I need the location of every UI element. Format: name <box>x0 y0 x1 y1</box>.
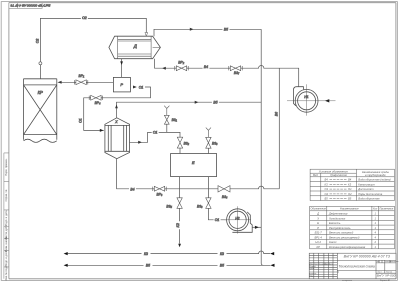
valve VR1 flanged <box>74 80 87 85</box>
svg-text:Пары дистиллята: Пары дистиллята <box>358 192 382 196</box>
flow arrow right on B5 top <box>190 28 194 31</box>
H1 suction arrow <box>325 99 329 102</box>
svg-text:Колонна ректификационная: Колонна ректификационная <box>329 245 366 249</box>
svg-text:О1: О1 <box>153 131 158 135</box>
svg-text:ВнГУ ХР-000: ВнГУ ХР-000 <box>377 274 396 278</box>
label K3 right <box>218 251 227 256</box>
svg-text:Взам. инв.№: Взам. инв.№ <box>4 236 8 252</box>
svg-text:В37: В37 <box>234 71 240 76</box>
svg-text:В31-7: В31-7 <box>315 231 323 235</box>
svg-text:К3: К3 <box>144 252 148 256</box>
B5 left arrow <box>64 264 68 267</box>
pipe K2 drain <box>179 208 181 243</box>
svg-text:ВР4: ВР4 <box>95 101 101 106</box>
left margin stamp boxes <box>4 153 9 279</box>
svg-text:Вентиль запорный: Вентиль запорный <box>329 231 354 235</box>
pipe O2: column top to condenser D <box>40 18 146 78</box>
valve V3-7 flanged <box>229 66 242 71</box>
arrow down into D <box>145 33 148 37</box>
svg-text:ВР2: ВР2 <box>178 60 184 65</box>
specification table <box>310 206 395 249</box>
svg-text:ВнГУ КР 000000 АВ 4 07 ТЗ: ВнГУ КР 000000 АВ 4 07 ТЗ <box>10 3 50 7</box>
tank E bottom stubs <box>180 177 209 198</box>
valve V3-1 vertical <box>164 115 169 124</box>
legend table <box>310 169 394 200</box>
pipe D bottom to P <box>121 59 123 78</box>
label B5 right <box>218 263 227 268</box>
sewer line K3 with hop <box>68 251 271 254</box>
svg-text:В33: В33 <box>212 141 218 146</box>
svg-text:О2: О2 <box>82 16 87 20</box>
svg-text:Насос: Насос <box>329 240 337 244</box>
svg-text:К3: К3 <box>220 252 224 256</box>
svg-text:В5: В5 <box>146 264 150 268</box>
svg-text:В35: В35 <box>166 204 172 209</box>
pipe P to column KP <box>58 81 114 83</box>
copy footer captions <box>342 279 391 282</box>
svg-text:КР: КР <box>317 245 321 249</box>
svg-text:О2: О2 <box>325 192 329 196</box>
valve V3-4 <box>218 186 230 192</box>
svg-text:Е: Е <box>317 221 319 225</box>
arrow up on X nozzle <box>115 105 118 109</box>
water line B5 bottom <box>68 264 271 266</box>
arrow into X <box>100 129 104 132</box>
top-left inventory stamp box <box>9 3 42 9</box>
valve VR2 flanged <box>175 66 188 71</box>
svg-text:КР: КР <box>38 90 43 95</box>
pipe O1 to pump H2 <box>208 208 226 220</box>
svg-text:Масштаб: Масштаб <box>390 261 398 263</box>
column KP (rectification column) <box>24 79 57 143</box>
svg-text:Канализация: Канализация <box>358 182 375 186</box>
svg-text:О1: О1 <box>325 187 329 191</box>
svg-text:Дистиллят: Дистиллят <box>357 187 374 191</box>
valve V3-6 vertical <box>206 198 211 209</box>
pipe V3-3 to tank E <box>207 148 209 153</box>
svg-text:О1: О1 <box>79 118 83 123</box>
pipe B5 from D top to trunk <box>154 29 261 36</box>
svg-text:В5: В5 <box>213 101 217 105</box>
arrow down K2 <box>178 244 181 248</box>
pipe B4 bottom: X bottom to B6 with hop <box>117 159 280 189</box>
svg-text:Листов: Листов <box>386 272 392 274</box>
svg-text:В4: В4 <box>348 178 352 182</box>
svg-text:ВнГУ КР 000000 АВ 4 07 ТЗ: ВнГУ КР 000000 АВ 4 07 ТЗ <box>344 255 391 259</box>
pump H2 <box>225 206 251 233</box>
svg-text:Утв.: Утв. <box>309 275 313 277</box>
svg-text:Вид: Вид <box>313 173 318 177</box>
valve V3-5 vertical <box>177 198 182 209</box>
label B5 left <box>144 263 153 268</box>
svg-text:В4: В4 <box>325 178 329 182</box>
svg-text:В5: В5 <box>325 197 329 201</box>
pipe B4: H1 to condenser D with hop over trunk <box>155 59 299 87</box>
arrow down D to P <box>120 61 123 65</box>
column KP break wave <box>24 139 57 142</box>
valve VR4 flanged <box>89 95 102 100</box>
svg-text:Д: Д <box>316 212 319 216</box>
title block <box>309 253 396 279</box>
svg-text:Вода оборотная: Вода оборотная <box>358 197 380 201</box>
svg-text:Дефлегматор: Дефлегматор <box>328 212 348 216</box>
svg-text:О2: О2 <box>348 192 352 196</box>
funnel over valve V3-1 <box>164 106 169 116</box>
vent funnel over V3-3 <box>206 128 211 138</box>
pump H1 (fan/blower) <box>287 84 336 115</box>
svg-text:О1: О1 <box>139 85 144 89</box>
svg-text:Подп. и дата: Подп. и дата <box>4 250 8 266</box>
pipe V3-1 to O1 line <box>166 124 168 132</box>
svg-text:К3: К3 <box>325 182 329 186</box>
label B4 top <box>203 64 210 69</box>
svg-text:Х: Х <box>316 216 319 220</box>
arrow on X outlet <box>138 141 142 144</box>
svg-text:Справ. №: Справ. № <box>4 190 8 202</box>
svg-text:Н1: Н1 <box>304 95 308 99</box>
svg-text:Технологическая схема: Технологическая схема <box>338 265 374 269</box>
valve V3-2 vertical <box>177 137 182 148</box>
svg-text:О2: О2 <box>35 39 39 44</box>
title block small captions <box>309 261 398 277</box>
svg-text:О1: О1 <box>348 187 352 191</box>
svg-text:Лит.: Лит. <box>376 261 380 263</box>
svg-text:Примечание: Примечание <box>380 208 394 211</box>
label K3 left <box>142 251 151 256</box>
svg-text:В4: В4 <box>204 65 208 69</box>
svg-text:В5: В5 <box>224 28 228 32</box>
svg-text:Подп. и дата: Подп. и дата <box>4 210 8 226</box>
arrow into KP <box>58 81 62 84</box>
H2 discharge arrow <box>255 226 259 229</box>
svg-text:В36: В36 <box>197 204 203 209</box>
svg-text:Условные обозначения: Условные обозначения <box>319 169 348 173</box>
svg-text:Пров.: Пров. <box>309 268 314 270</box>
svg-text:Вентиль регулируемый: Вентиль регулируемый <box>329 235 360 239</box>
reflux divider P <box>113 77 130 92</box>
arrow out of P <box>133 86 137 89</box>
svg-text:Обозначение: Обозначение <box>311 208 327 211</box>
K3 right arrow <box>270 252 274 255</box>
svg-text:В5: В5 <box>348 197 352 201</box>
pipe O1: P right, down, left through VR4, down, into X <box>84 87 151 130</box>
svg-text:Лист: Лист <box>378 272 382 274</box>
label O2 horizontal <box>81 15 88 20</box>
pipe V3-2 to tank E <box>179 148 181 153</box>
svg-text:Наименование: Наименование <box>340 207 359 211</box>
label O1 mid <box>152 130 159 134</box>
svg-text:К3: К3 <box>348 182 352 186</box>
svg-text:В32: В32 <box>184 141 190 146</box>
label B5 mid <box>212 100 219 105</box>
svg-text:В31: В31 <box>172 118 178 123</box>
svg-text:О1: О1 <box>215 218 220 222</box>
svg-text:Графическое: Графическое <box>330 173 347 177</box>
sampler circle on O2 riser <box>39 62 42 65</box>
B5 right arrow <box>270 264 274 267</box>
pipe B6 branch <box>278 68 280 189</box>
svg-text:Емкость: Емкость <box>329 221 341 225</box>
label O1 at H2 <box>214 218 221 222</box>
svg-text:В6: В6 <box>275 112 279 116</box>
svg-text:В4: В4 <box>130 187 134 191</box>
K3 left arrow <box>64 252 68 255</box>
tank E <box>171 154 217 177</box>
svg-text:Д: Д <box>133 44 137 49</box>
pipe B5 from X top to trunk <box>117 102 262 117</box>
svg-text:в трубопроводе: в трубопроводе <box>365 173 386 177</box>
flow arrow right on B5-X <box>195 101 199 104</box>
svg-text:Холодильник: Холодильник <box>328 216 346 220</box>
svg-text:Р: Р <box>120 82 123 87</box>
svg-text:Инв.№ подл.: Инв.№ подл. <box>4 265 8 281</box>
B5 trunk vertical <box>261 29 263 265</box>
svg-text:ВР1-4: ВР1-4 <box>314 235 322 239</box>
svg-text:Е: Е <box>192 160 195 165</box>
svg-text:Н2: Н2 <box>235 216 239 220</box>
svg-text:Н1,2: Н1,2 <box>315 240 321 244</box>
svg-text:Кол: Кол <box>373 208 378 211</box>
svg-text:ВР3: ВР3 <box>157 193 163 198</box>
H2 discharge to trunk <box>252 226 261 228</box>
svg-text:Вода оборотная (подача): Вода оборотная (подача) <box>358 178 390 182</box>
svg-text:В5: В5 <box>220 264 224 268</box>
svg-text:Р: Р <box>317 226 319 230</box>
svg-text:В34: В34 <box>222 195 228 200</box>
svg-text:Распределитель: Распределитель <box>329 226 351 230</box>
flow arrow left on B4 <box>162 67 166 70</box>
svg-text:Перв. примен.: Перв. примен. <box>4 158 8 176</box>
pipe O1 X right outlet to valve V3-2 <box>130 132 181 142</box>
valve VR3 flanged <box>153 186 166 191</box>
condenser D (horizontal shell) <box>109 36 160 59</box>
label B4 bottom <box>129 187 136 192</box>
label B5 top <box>223 27 230 32</box>
left margin rotated captions <box>4 158 8 280</box>
svg-text:ВР1: ВР1 <box>79 74 85 79</box>
valve V3-3 vertical <box>206 137 211 148</box>
cooler X (vertical shell-tube) <box>105 118 130 159</box>
